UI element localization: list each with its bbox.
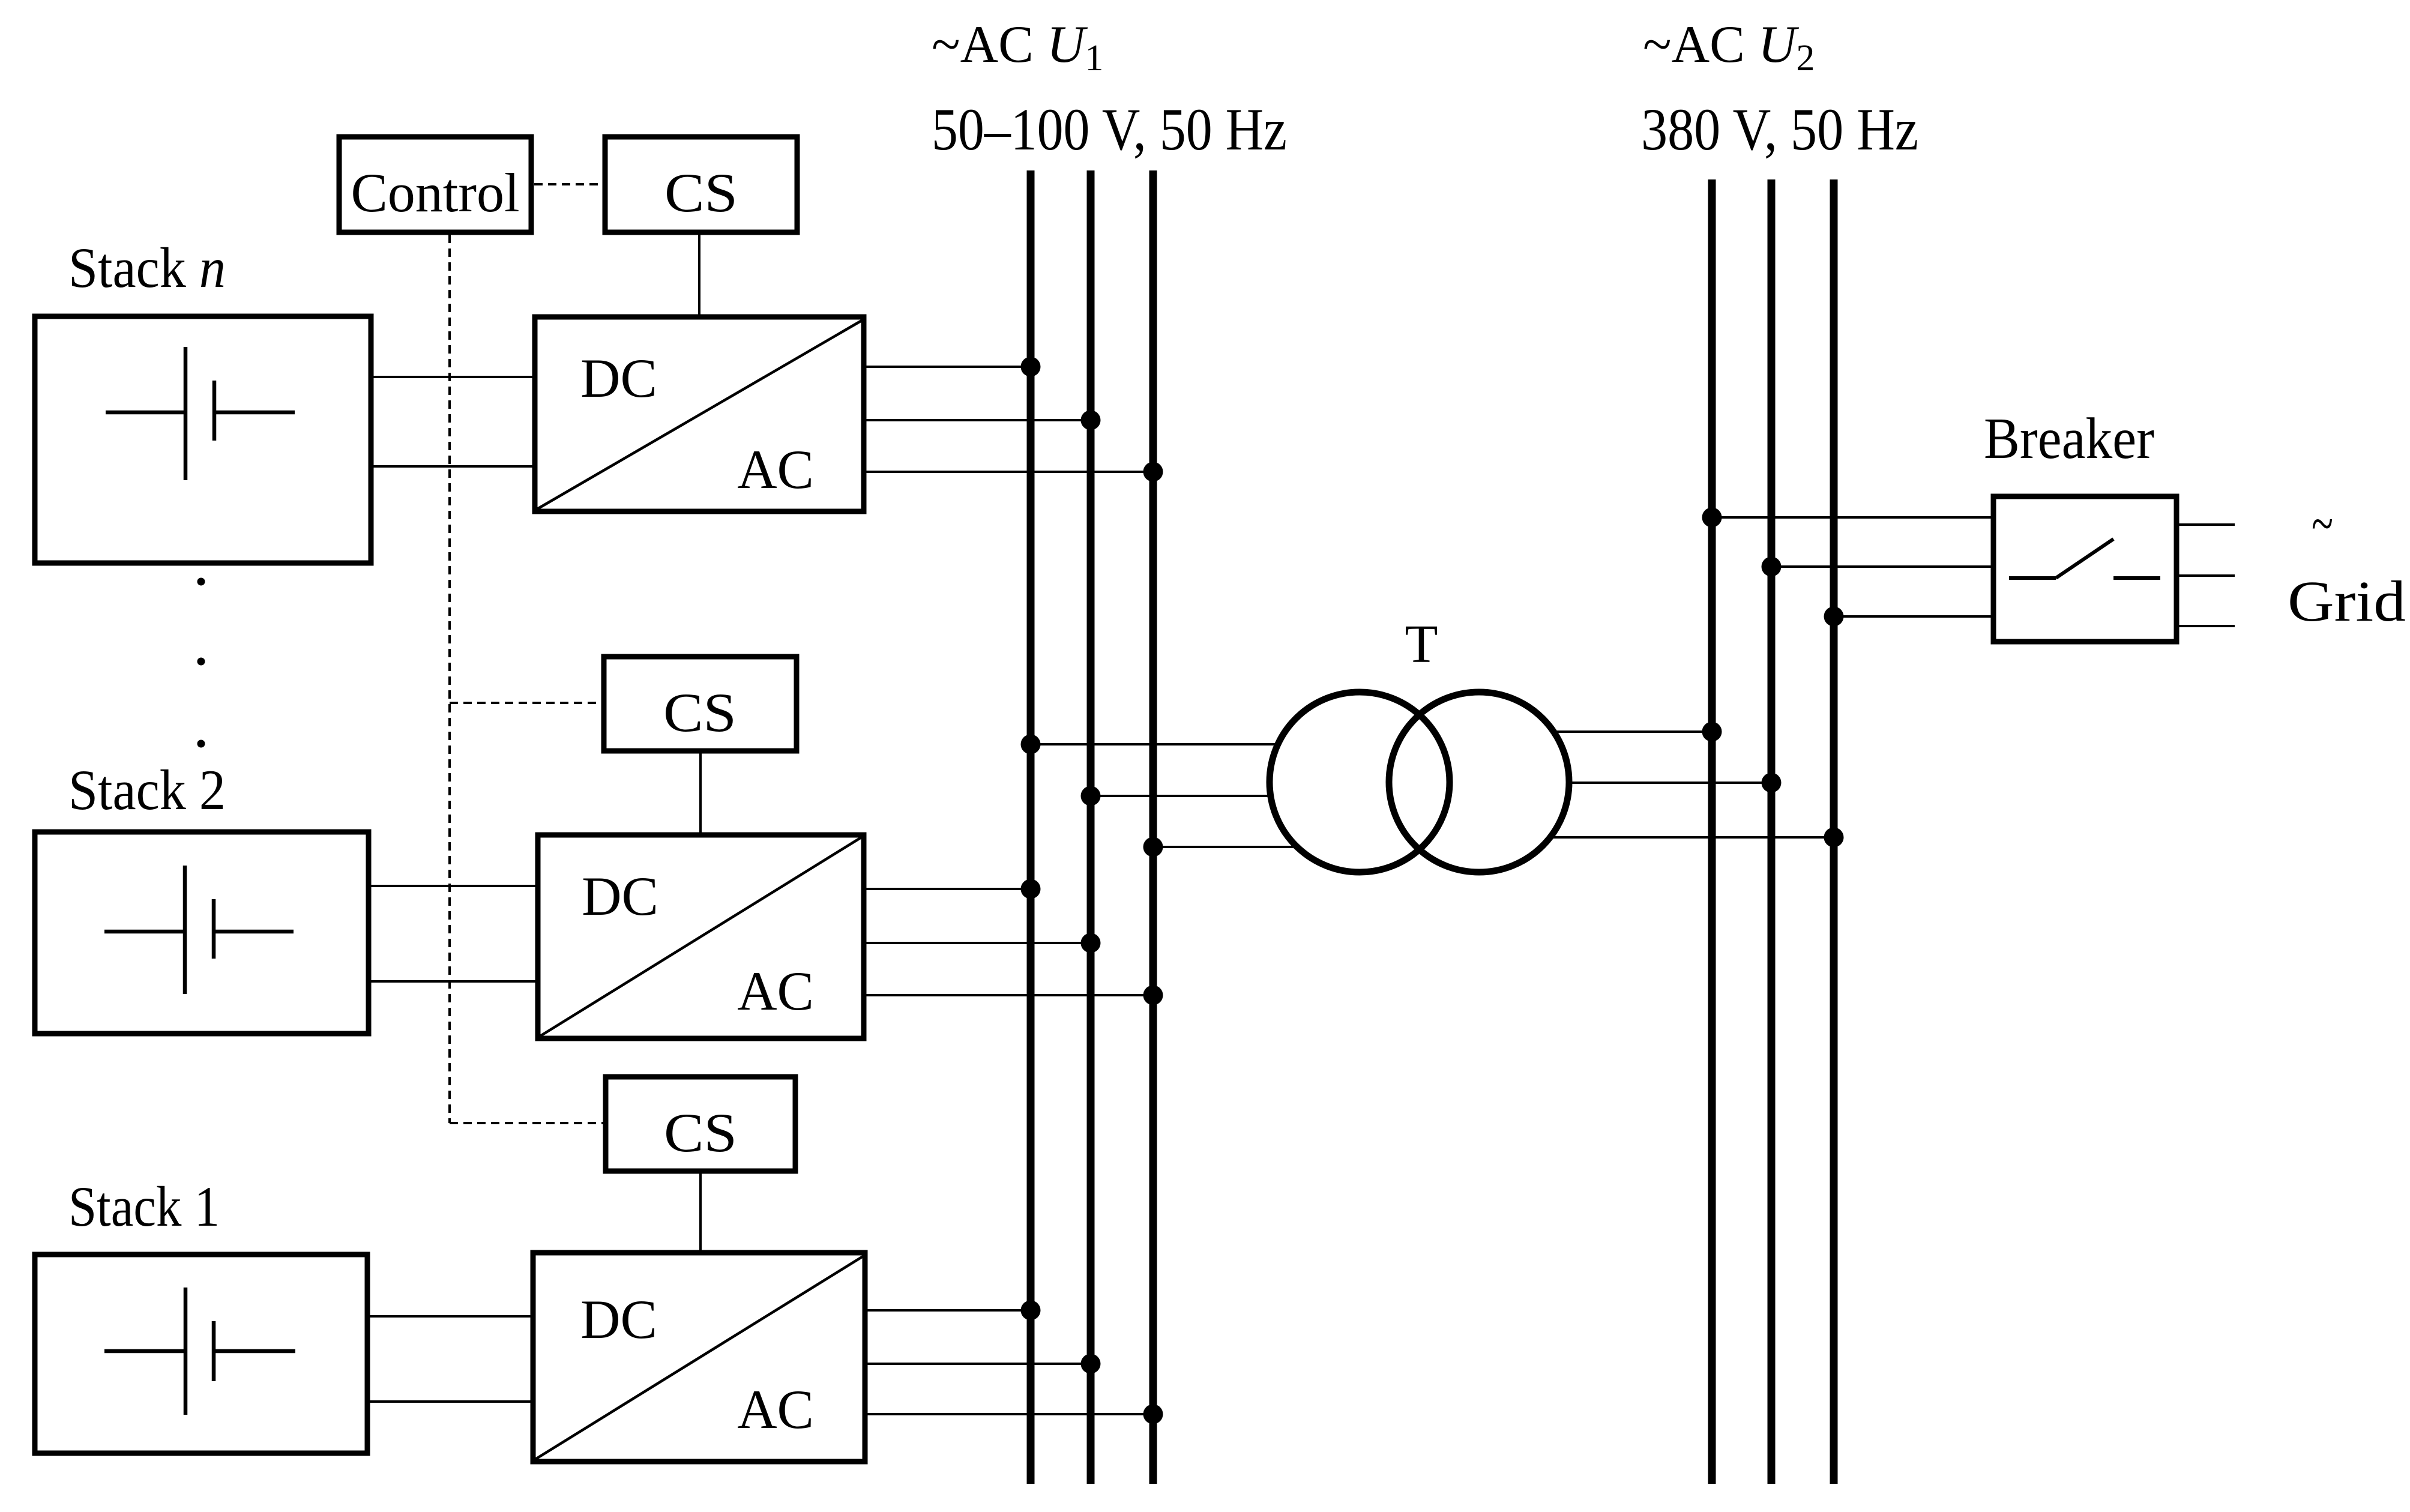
dashed control link Control to CS1 [534,183,603,185]
wire transformer secondary b to bus L2' [1568,782,1771,784]
breaker switch left contact [2009,576,2056,580]
dashed control branch wire to CS2 [450,702,601,704]
wire CS3 to converter U3 [699,1171,702,1251]
battery symbol stack 1 [104,1288,295,1415]
node AC U2 bus header label [1641,16,1918,163]
junction dot T primary b on L2 [1081,786,1101,806]
wire converter U1 phase c to bus L3 [865,471,1153,473]
junction dot T primary c on L3 [1143,837,1163,857]
wire breaker output a to grid [2178,523,2235,526]
svg-text:Stack n: Stack n [68,236,226,300]
wire stack 2 plus to converter U2 [370,885,537,887]
wire converter U1 phase a to bus L1 [865,366,1031,368]
wire bus L1 to transformer primary a [1031,743,1279,745]
wire bus L1' to breaker [1712,516,1992,519]
breaker box [1993,496,2177,642]
junction dot U1a on L1 [1021,357,1041,377]
junction dot U3c on L3 [1143,1405,1163,1424]
node AC U1 bus header label [932,16,1287,163]
wire stack n plus to converter U1 [372,376,534,378]
converter U1 DC/AC box [535,317,864,511]
control system CS2 box [604,657,797,751]
junction dot T secondary a on L1' [1702,722,1722,742]
junction dot U2b on L2 [1081,933,1101,953]
svg-text:AC: AC [737,960,814,1022]
junction dot breaker b on L2' [1762,557,1782,577]
junction dot breaker a on L1' [1702,508,1722,528]
wire stack 1 minus to converter U3 [369,1400,532,1403]
junction dot T primary a on L1 [1021,735,1041,754]
battery stack 2 box [35,832,369,1034]
svg-text:50–100 V, 50 Hz: 50–100 V, 50 Hz [932,96,1287,163]
converter U2 DC/AC box [538,835,864,1038]
control system CS1 box [605,137,797,232]
svg-text:DC: DC [580,348,657,409]
junction dot U1b on L2 [1081,411,1101,430]
svg-text:AC: AC [737,1379,814,1440]
wire converter U1 phase b to bus L2 [865,419,1091,421]
junction dot T secondary b on L2' [1762,773,1782,793]
junction dot T secondary c on L3' [1824,828,1844,848]
junction dot U2c on L3 [1143,986,1163,1005]
svg-text:CS: CS [664,162,738,223]
wire converter U2 phase a to bus L1 [865,888,1031,890]
wire CS2 to converter U2 [699,751,702,834]
wire bus L2' to breaker [1771,565,1992,568]
wire converter U3 phase c to bus L3 [866,1413,1153,1415]
wire converter U2 phase b to bus L2 [865,942,1091,944]
battery symbol stack 2 [104,866,294,994]
svg-text:~: ~ [2312,493,2333,554]
svg-text:Stack 1: Stack 1 [68,1175,220,1238]
bus L2' 380V [1768,179,1776,1484]
svg-text:380 V, 50 Hz: 380 V, 50 Hz [1641,96,1918,163]
control system CS3 box [606,1077,795,1171]
battery symbol stack n [106,347,295,480]
wire stack 2 minus to converter U2 [370,980,537,983]
bus L3' 380V [1830,179,1838,1484]
svg-text:DC: DC [580,1289,657,1350]
svg-text:~AC U1: ~AC U1 [932,16,1103,79]
svg-text:CS: CS [664,1102,737,1163]
dashed control branch wire to CS3 [450,1122,603,1124]
svg-text:Stack 2: Stack 2 [68,758,226,822]
breaker switch blade [2056,539,2113,578]
wire bus L3' to breaker [1834,615,1992,618]
svg-text:CS: CS [663,682,737,743]
wire stack n minus to converter U1 [372,465,534,468]
wire stack 1 plus to converter U3 [369,1315,532,1318]
wire CS1 to converter U1 [698,235,700,316]
battery stack 1 box [35,1254,367,1453]
svg-text:AC: AC [737,439,814,500]
svg-text:Breaker: Breaker [1984,406,2154,471]
wire converter U3 phase b to bus L2 [866,1363,1091,1365]
converter U3 DC/AC box [533,1253,865,1462]
breaker switch right contact [2113,576,2160,580]
wire breaker output b to grid [2178,574,2235,577]
junction dot breaker c on L3' [1824,607,1844,627]
svg-text:~AC U2: ~AC U2 [1643,16,1815,79]
svg-text:Control: Control [351,162,519,223]
wire bus L3 to transformer primary c [1153,846,1297,848]
svg-text:DC: DC [582,866,658,927]
junction dot U2a on L1 [1021,879,1041,899]
transformer T secondary winding circle [1389,692,1569,872]
dashed control trunk wire vertical [448,235,451,1123]
transformer T primary winding circle [1270,692,1450,872]
vertical ellipsis dots between stacks [197,578,205,748]
wire transformer secondary c to bus L3' [1552,836,1834,839]
control unit box [339,137,531,232]
junction dot U3a on L1 [1021,1301,1041,1321]
bus L3 50-100V [1149,170,1157,1484]
wire bus L2 to transformer primary b [1091,795,1271,797]
wire breaker output c to grid [2178,625,2235,627]
bus L1' 380V [1708,179,1716,1484]
svg-text:Grid: Grid [2288,569,2406,633]
bus L1 50-100V [1027,170,1035,1484]
wire converter U3 phase a to bus L1 [866,1309,1031,1312]
wire converter U2 phase c to bus L3 [865,994,1153,996]
svg-text:T: T [1405,615,1438,674]
junction dot U1c on L3 [1143,462,1163,482]
wire transformer secondary a to bus L1' [1552,730,1712,733]
junction dot U3b on L2 [1081,1354,1101,1374]
bus L2 50-100V [1087,170,1095,1484]
battery stack n box [35,316,371,563]
